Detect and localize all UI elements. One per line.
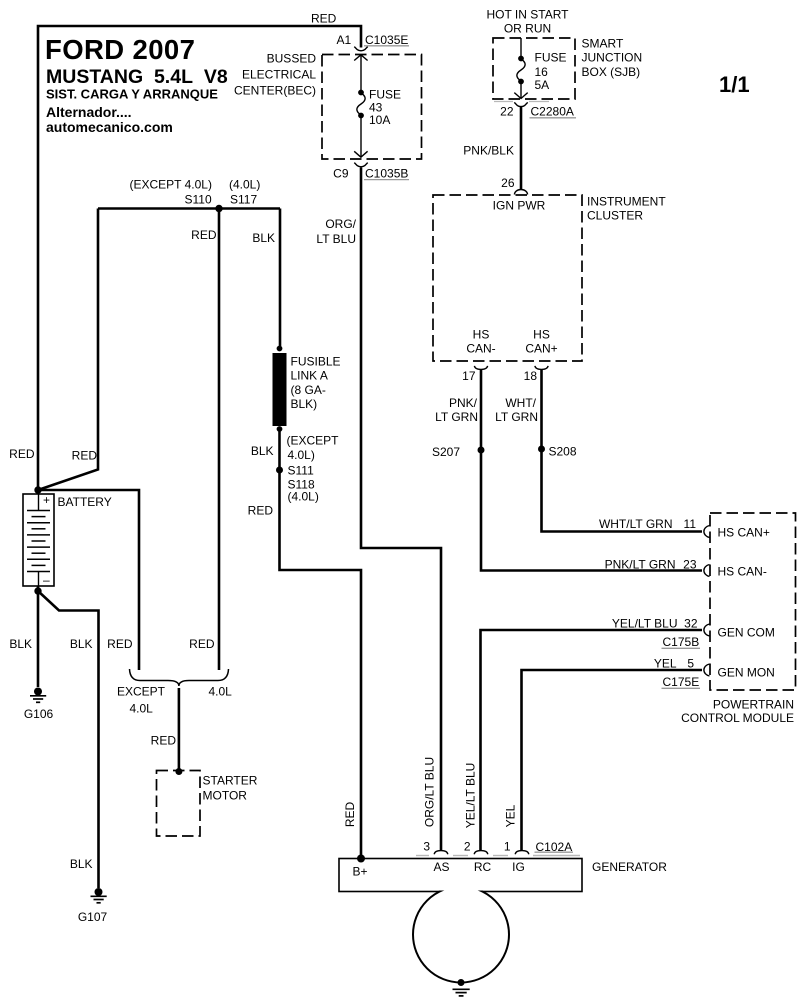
svg-text:C2280A: C2280A — [531, 105, 574, 119]
svg-text:CLUSTER: CLUSTER — [587, 209, 643, 223]
pin 17 connector at cluster bottom — [462, 366, 487, 383]
svg-text:5A: 5A — [535, 78, 550, 92]
svg-text:17: 17 — [462, 369, 476, 383]
svg-text:GEN COM: GEN COM — [718, 626, 775, 640]
node battery negative terminal — [34, 587, 41, 594]
svg-text:YEL: YEL — [654, 657, 677, 671]
svg-text:4.0L): 4.0L) — [288, 448, 315, 462]
title block — [45, 34, 228, 135]
svg-text:BLK: BLK — [9, 637, 32, 651]
generator body circle — [413, 887, 509, 983]
svg-text:1: 1 — [504, 840, 511, 854]
svg-text:RED: RED — [311, 12, 337, 26]
smart junction box dashed box — [493, 37, 642, 100]
svg-text:POWERTRAIN: POWERTRAIN — [713, 698, 794, 712]
svg-text:(4.0L): (4.0L) — [288, 490, 319, 504]
svg-text:RED: RED — [72, 449, 98, 463]
svg-text:S117: S117 — [230, 193, 257, 207]
svg-text:BLK: BLK — [70, 637, 93, 651]
svg-text:4.0L: 4.0L — [209, 685, 233, 699]
svg-text:RED: RED — [248, 504, 274, 518]
wire ORG/LT BLU from C9 down, jog right at y548, down to generator AS — [316, 168, 441, 851]
svg-text:RED: RED — [191, 228, 217, 242]
svg-text:YEL/LT BLU: YEL/LT BLU — [464, 763, 478, 829]
svg-text:STARTER: STARTER — [203, 774, 258, 788]
node C9 C1035B connector at BEC bottom — [333, 163, 409, 181]
wire RED top horizontal and left border — [38, 12, 361, 491]
splice S207 — [432, 445, 485, 459]
svg-text:4.0L: 4.0L — [130, 702, 154, 716]
svg-text:+: + — [43, 493, 50, 507]
wire YEL 5 from PCM GEN MON down to generator IG — [522, 657, 703, 851]
svg-text:BATTERY: BATTERY — [58, 495, 112, 509]
fusible link A — [273, 346, 341, 432]
svg-text:CONTROL MODULE: CONTROL MODULE — [681, 711, 794, 725]
wire PNK/LT GRN from pin 17 to S207 — [435, 370, 481, 450]
wire RED brace to starter motor — [151, 688, 179, 772]
svg-text:–: – — [43, 573, 50, 587]
svg-text:automecanico.com: automecanico.com — [46, 119, 173, 135]
svg-text:GEN MON: GEN MON — [718, 666, 775, 680]
svg-text:S208: S208 — [549, 445, 577, 459]
svg-text:BLK: BLK — [251, 444, 274, 458]
svg-text:18: 18 — [524, 369, 538, 383]
svg-text:3: 3 — [423, 840, 430, 854]
instrument cluster dashed box — [433, 195, 666, 362]
generator pin numbers and connector C102A — [423, 840, 573, 855]
ground G106 — [24, 688, 54, 722]
svg-text:SIST. CARGA Y ARRANQUE: SIST. CARGA Y ARRANQUE — [46, 87, 218, 102]
svg-text:5: 5 — [687, 657, 694, 671]
pin 22 connector C2280A at SJB bottom — [500, 102, 576, 118]
wire WHT/LT GRN from pin 18 to S208 — [495, 370, 541, 449]
gray connector row marks at SJB pin 22 — [494, 101, 549, 103]
svg-text:PNK/: PNK/ — [449, 396, 478, 410]
generator AS pin connector — [434, 851, 448, 855]
wire RED center drop from S110 dot to brace — [189, 209, 219, 671]
wire PNK/BLK from SJB to instrument cluster — [463, 107, 521, 191]
wire WHT/LT GRN 11 from S208 to PCM HS CAN+ — [542, 449, 703, 532]
svg-text:23: 23 — [683, 558, 697, 572]
svg-text:WHT/LT GRN: WHT/LT GRN — [599, 517, 673, 531]
svg-text:ELECTRICAL: ELECTRICAL — [242, 68, 316, 82]
svg-text:FUSE: FUSE — [369, 88, 401, 102]
svg-text:32: 32 — [684, 617, 698, 631]
svg-text:GENERATOR: GENERATOR — [592, 860, 667, 874]
svg-text:HS: HS — [473, 328, 490, 342]
svg-text:YEL/LT BLU: YEL/LT BLU — [612, 617, 678, 631]
PCM pin 32 connector — [704, 624, 710, 636]
wire BLK battery negative to G107 — [38, 591, 99, 888]
brace EXCEPT 4.0L / 4.0L — [117, 669, 232, 716]
svg-text:10A: 10A — [369, 113, 390, 127]
svg-text:PNK/BLK: PNK/BLK — [463, 144, 514, 158]
svg-text:HS CAN+: HS CAN+ — [718, 526, 770, 540]
wire BLK right drop from junction to fusible link — [252, 209, 280, 351]
svg-text:FORD 2007: FORD 2007 — [45, 34, 195, 65]
svg-text:LT GRN: LT GRN — [435, 410, 478, 424]
svg-text:(8 GA-: (8 GA- — [291, 383, 326, 397]
svg-text:2: 2 — [464, 840, 471, 854]
generator RC pin connector — [474, 851, 488, 855]
svg-text:(EXCEPT: (EXCEPT — [287, 434, 340, 448]
powertrain control module dashed box — [681, 513, 795, 725]
svg-text:S207: S207 — [432, 445, 460, 459]
bussed electrical center dashed box — [234, 52, 422, 160]
svg-text:CAN+: CAN+ — [525, 342, 557, 356]
svg-text:LT GRN: LT GRN — [495, 410, 538, 424]
svg-text:BLK): BLK) — [291, 397, 318, 411]
splice S111 S118 — [276, 464, 319, 504]
svg-text:YEL: YEL — [504, 804, 518, 827]
starter motor dashed box — [157, 771, 258, 837]
svg-text:26: 26 — [501, 176, 515, 190]
svg-text:PNK/LT GRN: PNK/LT GRN — [605, 558, 676, 572]
svg-text:FUSE: FUSE — [535, 51, 567, 65]
ground G107 — [78, 888, 108, 924]
svg-text:G107: G107 — [78, 910, 108, 924]
svg-text:IGN PWR: IGN PWR — [493, 199, 546, 213]
svg-text:C1035B: C1035B — [365, 167, 408, 181]
wire RED battery positive to brace left — [38, 490, 139, 670]
generator ground — [453, 979, 470, 996]
svg-text:SMART: SMART — [582, 37, 624, 51]
svg-text:EXCEPT: EXCEPT — [117, 685, 166, 699]
svg-text:RED: RED — [189, 637, 215, 651]
svg-text:HS CAN-: HS CAN- — [718, 565, 767, 579]
svg-text:BOX (SJB): BOX (SJB) — [582, 65, 641, 79]
svg-text:INSTRUMENT: INSTRUMENT — [587, 195, 666, 209]
svg-text:WHT/: WHT/ — [505, 396, 536, 410]
node generator B+ terminal — [357, 855, 365, 863]
svg-text:OR RUN: OR RUN — [504, 22, 551, 36]
generator IG pin connector — [515, 851, 529, 855]
node battery positive terminal — [34, 486, 41, 493]
wire BLK battery negative to G106 — [9, 586, 38, 687]
svg-text:C9: C9 — [333, 167, 349, 181]
PCM pin 23 connector — [704, 565, 710, 577]
svg-text:IG: IG — [512, 860, 525, 874]
gray connector row marks at generator — [416, 855, 580, 857]
svg-text:AS: AS — [433, 860, 449, 874]
svg-text:22: 22 — [500, 105, 514, 119]
svg-text:FUSIBLE: FUSIBLE — [291, 355, 341, 369]
svg-text:16: 16 — [535, 65, 549, 79]
svg-text:S110: S110 — [185, 193, 212, 207]
svg-text:S111: S111 — [288, 464, 315, 478]
PCM pin 11 connector — [704, 526, 710, 538]
fuse 43 10A inside BEC — [354, 55, 401, 157]
svg-text:LT BLU: LT BLU — [316, 232, 356, 246]
svg-text:ORG/: ORG/ — [325, 217, 356, 231]
generator box — [339, 859, 667, 892]
svg-text:C175B: C175B — [663, 635, 700, 649]
svg-text:CAN-: CAN- — [466, 342, 495, 356]
wire RED left drop from junction to battery positive — [9, 209, 98, 491]
svg-text:CENTER(BEC): CENTER(BEC) — [234, 84, 316, 98]
wire BLK from fusible link to S111 — [251, 429, 339, 469]
svg-text:(EXCEPT 4.0L): (EXCEPT 4.0L) — [130, 178, 212, 192]
svg-text:BUSSED: BUSSED — [267, 52, 317, 66]
fuse 16 5A inside SJB — [514, 38, 566, 99]
pin 26 connector at cluster top — [501, 176, 527, 195]
node starter motor terminal — [175, 768, 182, 775]
svg-text:RED: RED — [151, 734, 177, 748]
svg-text:C175E: C175E — [663, 675, 700, 689]
battery — [23, 493, 112, 587]
PCM pin 5 connector — [704, 664, 710, 676]
svg-text:MUSTANG 5.4L V8: MUSTANG 5.4L V8 — [46, 66, 228, 88]
svg-text:RED: RED — [107, 637, 133, 651]
svg-text:RED: RED — [343, 802, 357, 828]
svg-text:Alternador....: Alternador.... — [46, 104, 132, 120]
wire YEL/LT BLU 32 from PCM GEN COM down to generator RC — [481, 617, 703, 851]
wire PNK/LT GRN 23 from S207 to PCM HS CAN- — [481, 450, 702, 572]
svg-text:RED: RED — [9, 447, 35, 461]
svg-text:RC: RC — [474, 860, 492, 874]
wire RED from S111 down, jog right to generator B+ — [248, 470, 361, 858]
splice node S110/S117 dot — [215, 205, 222, 212]
pin 18 connector at cluster bottom — [524, 366, 548, 383]
svg-text:MOTOR: MOTOR — [203, 789, 248, 803]
splice S208 — [538, 445, 577, 459]
svg-text:LINK A: LINK A — [291, 369, 328, 383]
svg-text:1/1: 1/1 — [719, 72, 750, 97]
svg-text:HOT IN START: HOT IN START — [486, 8, 569, 22]
svg-text:JUNCTION: JUNCTION — [582, 51, 643, 65]
label HOT IN START OR RUN — [486, 8, 569, 36]
node A1 C1035E connector at BEC top — [337, 33, 410, 51]
svg-text:HS: HS — [533, 328, 550, 342]
svg-text:11: 11 — [684, 517, 697, 531]
svg-text:A1: A1 — [337, 33, 352, 47]
svg-text:ORG/LT BLU: ORG/LT BLU — [423, 757, 437, 827]
svg-text:BLK: BLK — [252, 231, 275, 245]
svg-text:G106: G106 — [24, 707, 54, 721]
svg-text:C1035E: C1035E — [365, 33, 408, 47]
svg-text:(4.0L): (4.0L) — [229, 178, 260, 192]
svg-text:B+: B+ — [353, 865, 368, 879]
svg-text:BLK: BLK — [70, 857, 93, 871]
S110 S117 junction bar — [98, 178, 280, 209]
